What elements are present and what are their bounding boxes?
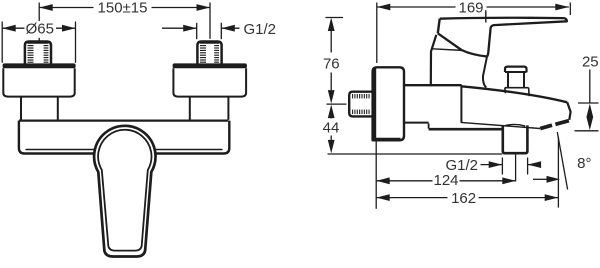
svg-text:44: 44 (323, 120, 340, 137)
svg-text:169: 169 (458, 0, 483, 16)
svg-text:25: 25 (582, 54, 599, 71)
svg-text:G1/2: G1/2 (244, 21, 277, 38)
svg-text:76: 76 (323, 56, 340, 73)
svg-text:8°: 8° (577, 155, 591, 172)
svg-text:150±15: 150±15 (98, 0, 148, 17)
svg-text:162: 162 (451, 190, 476, 207)
svg-text:124: 124 (433, 172, 458, 189)
svg-text:Ø65: Ø65 (26, 21, 54, 38)
